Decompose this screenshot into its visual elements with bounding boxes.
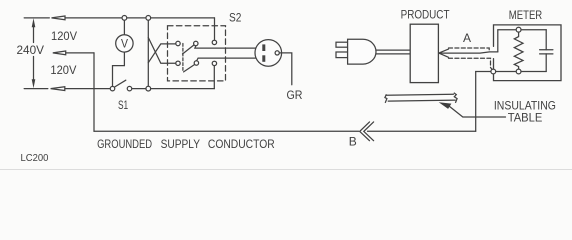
node meter case left [491,69,496,74]
plug P1 prong upper [336,42,348,47]
svg-text:120V: 120V [51,29,77,43]
node S2 terminal bottom-middle [194,61,198,65]
insulating table right break [454,93,457,103]
node meter top [516,27,521,32]
svg-text:240V: 240V [17,43,45,57]
svg-text:V: V [121,39,128,51]
wire middle neutral line [66,53,94,131]
resistor R1 zigzag [514,30,523,72]
capacitor C1 bottom stub [545,54,547,72]
svg-text:LC200: LC200 [21,152,49,164]
svg-text:CONDUCTOR: CONDUCTOR [208,137,275,151]
node S2 terminal top-left [176,41,180,45]
svg-text:B: B [349,135,357,149]
node S2 terminal top-middle [194,41,198,45]
capacitor C1 top stub [545,30,547,50]
svg-text:GROUNDED: GROUNDED [97,137,152,151]
voltmeter circle [116,35,133,52]
wire meter bottom rail [476,71,547,73]
switch S1 blade [114,80,125,87]
voltmeter U1 stub from top line [123,18,125,35]
svg-text:120V: 120V [50,63,76,77]
svg-text:TABLE: TABLE [508,111,543,125]
wire cord lower [376,53,410,55]
node S2 terminal top-right [212,40,216,44]
dimension 240V vertical with arrows [32,18,36,88]
wire grounded supply conductor bottom run [94,72,476,132]
node bottom line crossover tap [146,86,151,91]
node S2 terminal bottom-left [176,61,180,65]
METER box with entry gap on left edge [494,25,562,81]
switch S2 blade upper [183,45,195,54]
arrowhead middle open left [53,51,66,55]
arrowhead top line open left [52,16,66,20]
node S2 terminal bottom-right [212,61,216,65]
node top line crossover tap [146,16,151,21]
switch S2 blade lower [184,64,195,72]
arrow A open tip at product [439,49,449,57]
wire meter inner left and top rail [498,30,546,52]
wire A dashed upper [449,48,490,52]
receptacle slot lower [262,55,265,62]
plug P1 body [348,39,376,64]
wire crossover diagonal B [148,44,178,63]
arrowhead bottom open left [51,87,65,91]
receptacle ground pin [275,51,279,55]
capacitor C1 plates [540,50,553,54]
wire bottom supply line [24,63,214,88]
svg-text:A: A [463,31,471,45]
wire crossover vertical [147,18,149,89]
svg-text:GR: GR [287,88,303,102]
svg-text:S1: S1 [118,98,128,112]
svg-text:METER: METER [509,8,543,22]
node top line voltmeter tap [122,16,127,21]
insulating table bottom edge [388,100,456,101]
wire A dashed lower [449,58,494,71]
wire top supply line [24,18,214,44]
wire crossover diagonal A [148,38,178,64]
insulating table left break [385,94,387,103]
wire S2 upper output to receptacle [195,46,256,48]
wire ground pin to GR [279,53,292,85]
node S1 left terminal [110,86,115,91]
svg-text:S2: S2 [229,11,242,25]
leader arrowhead filled [439,102,452,109]
svg-text:PRODUCT: PRODUCT [401,7,450,21]
PRODUCT box [410,24,438,82]
leader line to table [449,106,506,117]
break B chevrons [360,122,374,141]
wire voltmeter to S1 [113,52,125,89]
receptacle slot upper [262,44,265,51]
page edge line [0,169,572,171]
wire S2 lower output to receptacle [197,58,256,61]
S2 dashed enclosure [168,26,226,81]
plug P1 prong lower [336,52,348,58]
node S1 right terminal [127,86,132,91]
insulating table top edge [386,93,454,96]
switch S2 linkage dashed [182,44,184,73]
wire cord upper [376,49,410,51]
wire A solid middle [439,52,498,53]
receptacle J1 circle [255,40,282,67]
node meter bottom [516,69,521,74]
svg-text:SUPPLY: SUPPLY [161,137,200,151]
